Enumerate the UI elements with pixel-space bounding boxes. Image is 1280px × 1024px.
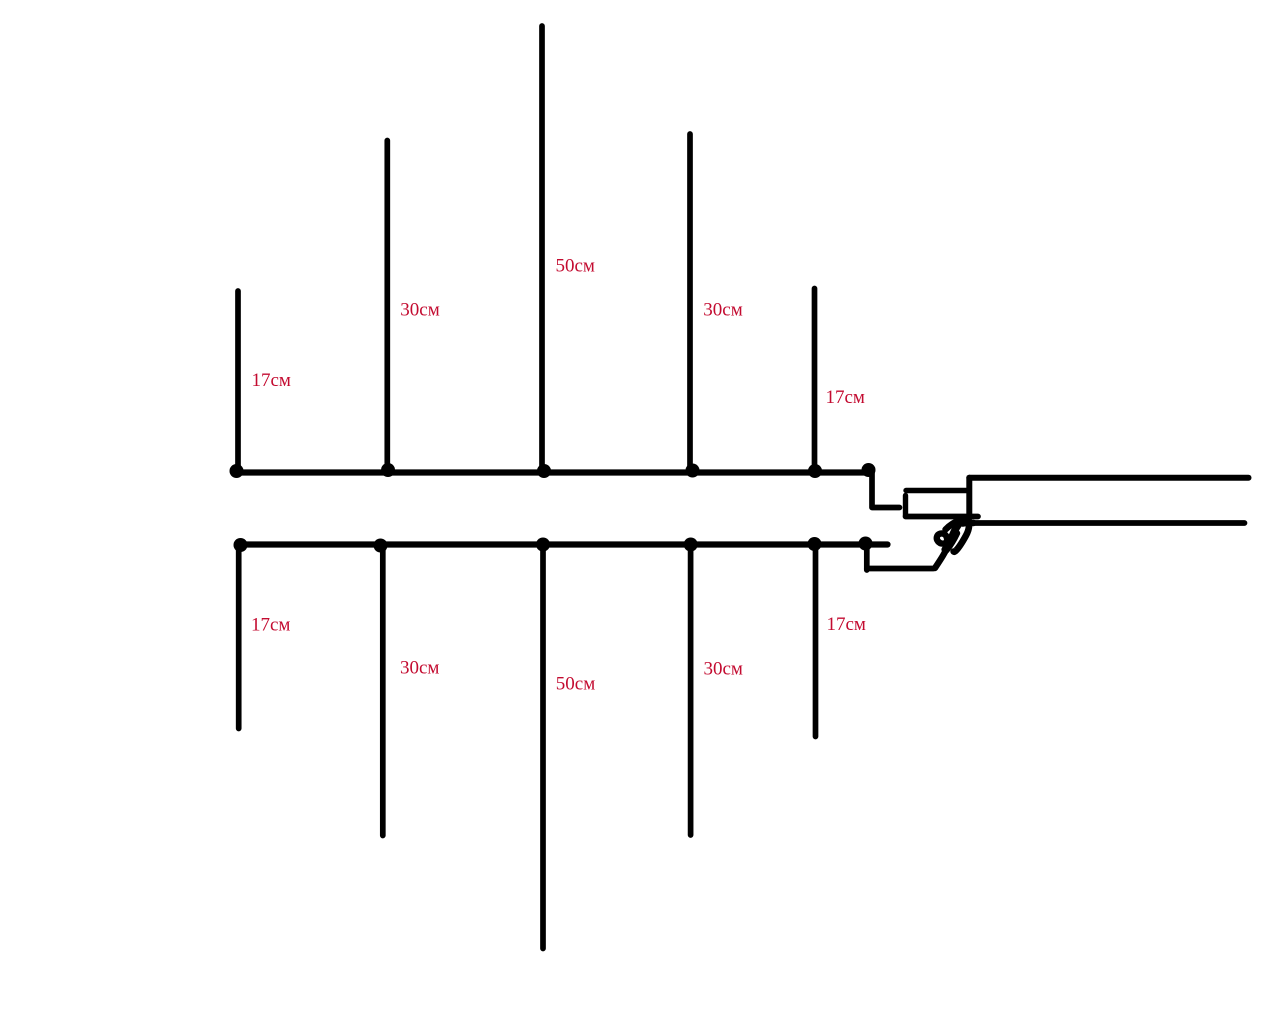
svg-text:30см: 30см <box>400 300 439 321</box>
wire: bottom feed run <box>867 566 934 572</box>
twist knot lobe curl <box>937 533 947 543</box>
element 17cm bottom-right <box>813 546 819 737</box>
element 17cm top-left <box>235 291 241 472</box>
twist knot second fill stroke <box>947 533 958 550</box>
svg-text:30см: 30см <box>703 300 742 321</box>
node dot top 2 <box>381 463 395 477</box>
svg-text:17см: 17см <box>252 370 291 391</box>
node dot top 1 <box>230 464 244 478</box>
svg-text:17см: 17см <box>251 614 290 635</box>
svg-text:30см: 30см <box>704 659 743 680</box>
feedline top conductor <box>969 475 1248 481</box>
matching box left edge <box>903 496 908 516</box>
svg-text:17см: 17см <box>826 387 865 408</box>
node dot bottom right <box>859 537 873 551</box>
node dot top 4 <box>686 464 700 478</box>
wire: bottom feed step down <box>864 545 870 570</box>
element 17cm top-right <box>812 289 818 473</box>
node dot bottom 3 <box>536 538 550 552</box>
node dot bottom 1 <box>234 538 248 552</box>
svg-text:50см: 50см <box>556 256 595 277</box>
element 30cm bottom-right <box>688 546 694 835</box>
element 30cm top-left <box>384 141 390 473</box>
wire: bottom boom <box>238 541 888 547</box>
element 30cm top-right <box>687 134 693 472</box>
element 30cm bottom-left <box>380 546 386 836</box>
matching box right edge / feed riser <box>966 478 972 518</box>
svg-text:50см: 50см <box>556 674 595 695</box>
twist knot rising stroke <box>935 519 966 568</box>
element 50cm bottom <box>540 546 546 949</box>
feedline bottom conductor <box>973 520 1245 526</box>
wire: top feed step down <box>872 473 900 508</box>
svg-text:17см: 17см <box>827 614 866 635</box>
node dot top 5 <box>808 464 822 478</box>
matching box bottom edge <box>906 514 979 520</box>
svg-text:30см: 30см <box>400 658 439 679</box>
node dot bottom 5 <box>808 537 822 551</box>
twist knot lobe exit diagonal <box>946 520 968 530</box>
twist knot wrap-down tail <box>954 518 970 552</box>
element 50cm top <box>539 26 545 472</box>
node dot bottom 2 <box>374 539 388 553</box>
element 17cm bottom-left <box>236 546 242 729</box>
twist knot exit to feedline <box>963 520 974 527</box>
node dot bottom 4 <box>684 538 698 552</box>
twist knot inner fill diagonal <box>945 522 962 550</box>
matching box top edge <box>906 488 967 493</box>
node dot top right corner <box>862 463 876 477</box>
wire: top boom <box>234 469 868 475</box>
node dot top 3 <box>537 464 551 478</box>
